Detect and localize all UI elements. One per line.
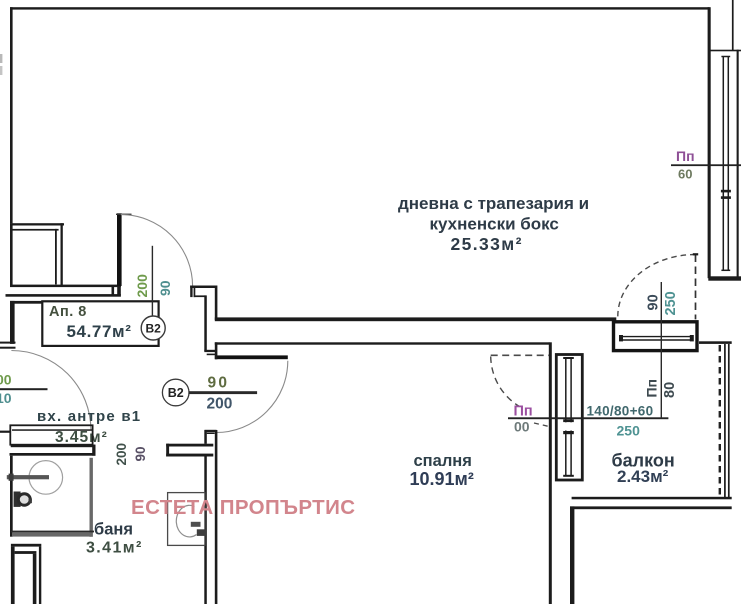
node dim leader vertical balcony bbox=[661, 282, 662, 418]
window W2 left square outer top bbox=[10, 223, 64, 225]
window W3 glass lines bbox=[565, 358, 567, 477]
furniture wardrobe hall bbox=[10, 425, 92, 444]
svg-text:200: 200 bbox=[207, 396, 233, 413]
node Pp60 dimension line bbox=[671, 164, 741, 166]
fixture toilet bbox=[14, 492, 21, 507]
svg-text:3.41м²: 3.41м² bbox=[86, 540, 143, 557]
wall balcony bottom line2 bbox=[570, 506, 732, 509]
svg-text:10: 10 bbox=[0, 390, 12, 406]
svg-text:В2: В2 bbox=[146, 322, 162, 336]
fixture shower circle bbox=[29, 461, 63, 495]
wall hall right band lower left line bbox=[204, 430, 207, 444]
wall hall right band right line upper bbox=[215, 286, 218, 321]
wall shaft below bathroom bbox=[11, 544, 41, 547]
svg-text:90: 90 bbox=[157, 280, 173, 296]
door D2 hall leaf (thick bar) bbox=[117, 213, 122, 286]
svg-text:54.77м²: 54.77м² bbox=[67, 322, 132, 341]
svg-text:00: 00 bbox=[0, 372, 12, 388]
svg-text:90: 90 bbox=[646, 294, 662, 310]
door D4 dashed closed line bbox=[491, 354, 549, 356]
window W2 outer right vertical bbox=[61, 223, 63, 286]
wire left exterior wall upper bbox=[10, 7, 13, 223]
wire hall left short wall line bbox=[10, 301, 45, 304]
door D5 dashed leaf vertical bbox=[695, 255, 697, 320]
svg-text:вх. антре в1: вх. антре в1 bbox=[37, 408, 141, 425]
svg-text:ЕСТЕТА ПРОПЪРТИС: ЕСТЕТА ПРОПЪРТИС bbox=[131, 496, 355, 519]
svg-text:2.43м²: 2.43м² bbox=[617, 467, 669, 486]
door D5 dashed arc bbox=[618, 255, 696, 317]
svg-text:90: 90 bbox=[208, 375, 230, 392]
wall entrance stub lines to edge bbox=[0, 342, 16, 344]
wire outer facade line right bbox=[737, 50, 739, 281]
wire small dashes right of 00 bbox=[534, 423, 549, 427]
wall hall right band left line bbox=[204, 295, 207, 351]
wall bathroom bottom black line bbox=[11, 531, 94, 533]
svg-text:140/80+60: 140/80+60 bbox=[587, 404, 654, 419]
wire top wall of living room bbox=[10, 7, 710, 9]
wall hall top band line2 bbox=[6, 294, 121, 297]
window W1 mullion bars bbox=[721, 190, 731, 193]
furniture sink unit WC bbox=[168, 493, 205, 546]
svg-text:250: 250 bbox=[663, 291, 679, 315]
wall bathroom bottom gray bbox=[12, 532, 91, 536]
wall WC stub top line bbox=[166, 444, 213, 447]
window W1 right glass lines bbox=[721, 57, 730, 271]
fixture towel bar bbox=[7, 475, 49, 479]
svg-text:60: 60 bbox=[678, 167, 692, 182]
door D5 balcony frame bbox=[614, 322, 698, 351]
door D2 arc bbox=[121, 215, 193, 287]
wall bathroom left bbox=[10, 456, 13, 537]
svg-text:250: 250 bbox=[617, 423, 641, 439]
wall WC stub bottom line bbox=[166, 454, 213, 457]
wire left wall mid (square left side) bbox=[10, 223, 13, 286]
wall hall top band line1 bbox=[10, 285, 121, 288]
door D4 dashed arc bbox=[491, 357, 520, 407]
svg-text:дневна с трапезария и: дневна с трапезария и bbox=[398, 194, 589, 213]
node cap box bedroom door bottom bbox=[205, 430, 217, 432]
wall hall right band lower right line bbox=[215, 430, 218, 604]
node B2 circle 1 bbox=[141, 316, 165, 340]
wire door D2 head line bbox=[116, 214, 132, 215]
wall balcony bottom line1 bbox=[572, 497, 732, 500]
door D5 glass bbox=[621, 336, 692, 338]
door D3 bedroom arc bbox=[216, 361, 288, 433]
wire top-right notch horizontal bbox=[708, 50, 741, 52]
node dim fraction line 90/200 bbox=[189, 391, 257, 394]
svg-text:3.45м²: 3.45м² bbox=[55, 429, 108, 446]
wire top-right notch vertical bbox=[732, 0, 734, 51]
wire left edge stub at entrance bbox=[0, 431, 10, 433]
node left edge dim line bbox=[0, 388, 48, 390]
wall balcony top line bbox=[699, 341, 732, 344]
svg-text:Пп: Пп bbox=[643, 379, 659, 398]
svg-text:80: 80 bbox=[662, 382, 678, 398]
wall below balcony vertical bbox=[570, 506, 574, 604]
svg-text:Пп: Пп bbox=[514, 404, 533, 420]
window W3 bedroom-balcony frame bbox=[556, 355, 582, 481]
node cap box bedroom door left top bbox=[204, 350, 215, 352]
fixture faucet bbox=[191, 522, 201, 527]
svg-text:25.33м²: 25.33м² bbox=[451, 234, 523, 254]
wire left wall lower segment bbox=[10, 301, 15, 344]
svg-text:кухненски бокс: кухненски бокс bbox=[430, 215, 559, 234]
wall bedroom door header thick bbox=[215, 355, 288, 359]
window W2 inner top bbox=[12, 229, 58, 231]
balcony railing solid lines bbox=[724, 344, 726, 497]
svg-text:Пп: Пп bbox=[676, 148, 695, 164]
wall WC stub left cap bbox=[166, 444, 169, 457]
wall bathroom right gray bbox=[90, 458, 93, 537]
wire left edge faint marks bbox=[0, 54, 2, 63]
wall living room bottom bbox=[215, 317, 617, 321]
node B2 circle 2 bbox=[162, 379, 189, 406]
svg-text:90: 90 bbox=[133, 446, 148, 461]
svg-text:00: 00 bbox=[514, 419, 530, 435]
wall bathroom top band line2 bbox=[10, 453, 96, 456]
fixture basin bbox=[176, 505, 196, 537]
node dim line vertical 200/90 bbox=[152, 246, 153, 316]
node Ap8 label box bbox=[42, 301, 158, 346]
node dim line 140/80+60 bbox=[508, 417, 668, 419]
wall bedroom right bbox=[549, 342, 552, 604]
balcony railing dashed bbox=[719, 345, 721, 497]
door D1 entrance arc bbox=[11, 351, 91, 431]
svg-text:спалня: спалня bbox=[414, 452, 472, 470]
window W2 inner right vertical bbox=[55, 229, 57, 285]
svg-text:баня: баня bbox=[94, 521, 133, 539]
node bathroom band right cap bbox=[92, 445, 95, 456]
wall hall bottom thin line bbox=[215, 342, 550, 344]
node wall cap right of hall door bbox=[190, 286, 217, 289]
svg-text:Ап. 8: Ап. 8 bbox=[49, 304, 87, 320]
svg-text:200: 200 bbox=[134, 274, 150, 298]
svg-text:10.91м²: 10.91м² bbox=[410, 469, 474, 489]
wall bathroom top band line1 bbox=[11, 445, 96, 448]
wire right wall of living room bbox=[708, 7, 711, 278]
svg-text:200: 200 bbox=[114, 443, 129, 466]
svg-text:В2: В2 bbox=[168, 386, 184, 400]
wall thick band right below window bbox=[708, 276, 741, 280]
node band right cap bbox=[112, 286, 115, 295]
